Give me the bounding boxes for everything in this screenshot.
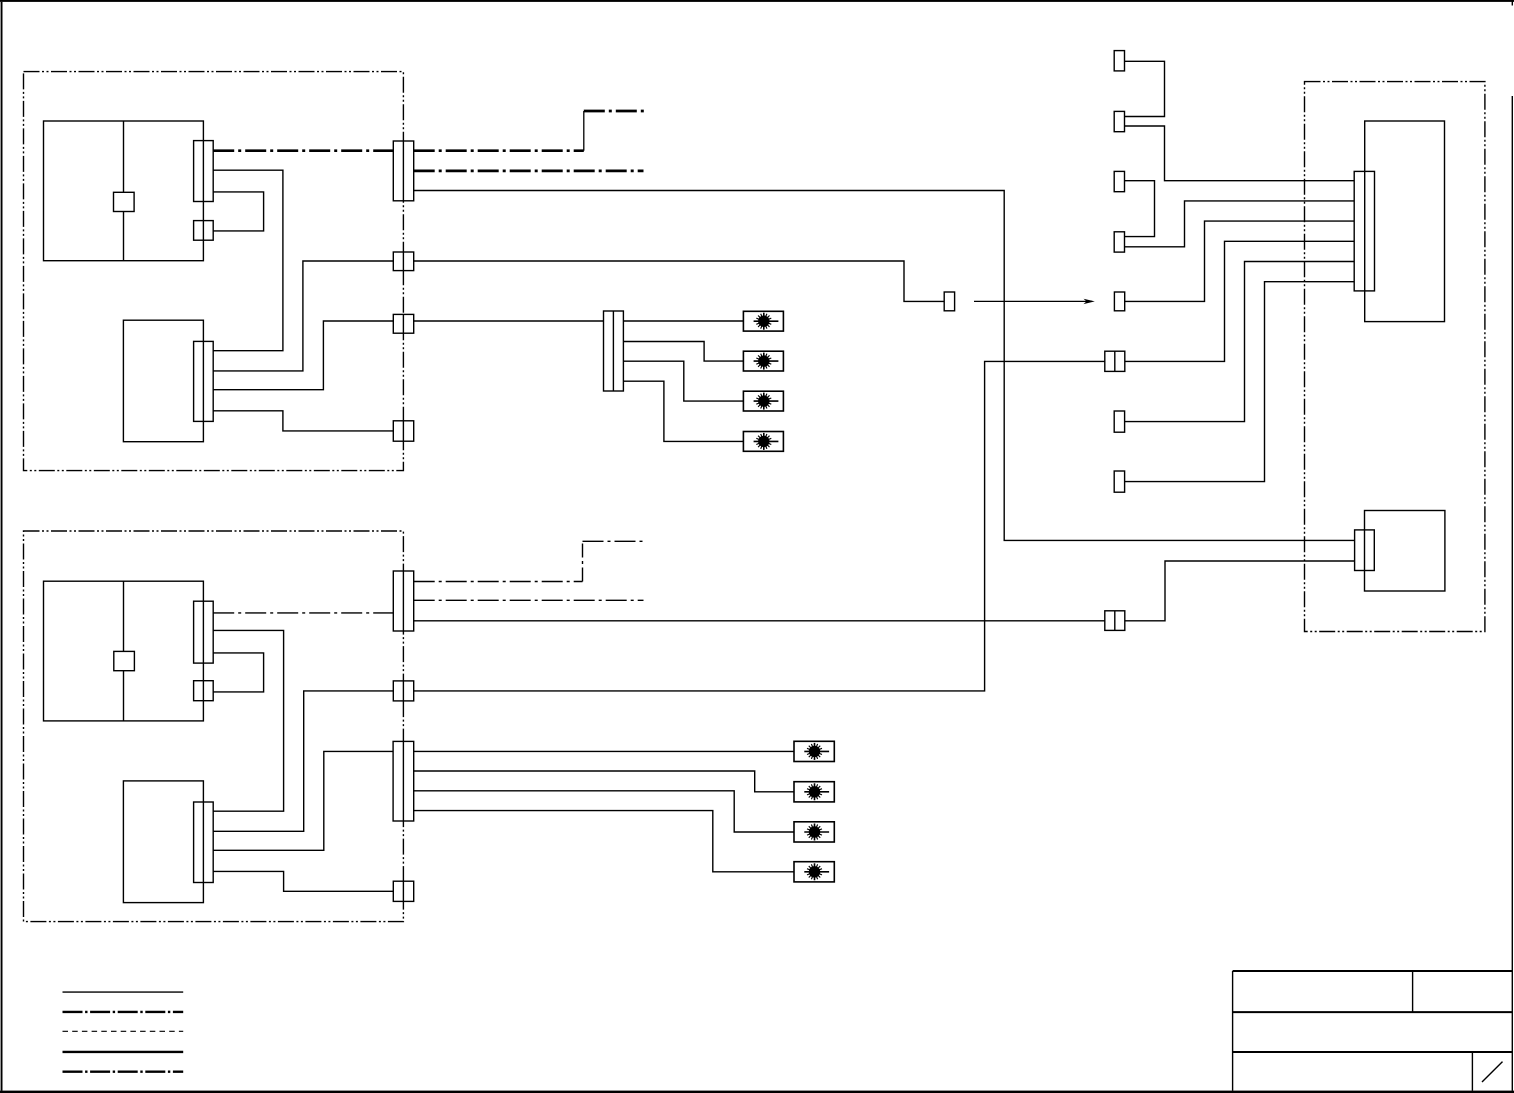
connector C6 — [1105, 351, 1125, 371]
connector A3-b — [194, 681, 214, 701]
wire B1 pin1 thick dash-dot with up-step — [414, 111, 644, 151]
block A1 divider — [123, 121, 125, 261]
connector A2-a — [194, 341, 214, 421]
boundary connector D1 — [393, 571, 413, 631]
arrow to connector C5 — [974, 299, 1095, 304]
wire A1 pin1 thick dash-dot to boundary connector B1 — [213, 149, 393, 152]
wire A4 pin2 to boundary connector D2 — [213, 691, 393, 831]
wire LC1 pin2 to lamp L2 — [623, 342, 743, 362]
connector C5 — [1114, 292, 1124, 311]
lamp L2 — [743, 351, 783, 371]
wire C2 to module pin1 — [1125, 126, 1355, 181]
wire D3 pin3 to lamp L7 — [414, 791, 794, 832]
wire A3 pin2 down to A4 pin1 — [213, 630, 283, 811]
legend line dash-dot thick 2 — [63, 1070, 184, 1072]
wire A2 pin2 to boundary connector B2 — [213, 261, 393, 371]
connector C8 — [1114, 411, 1124, 432]
lamp L5 — [794, 741, 834, 761]
wire D3 pin4 to lamp L8 — [414, 811, 794, 872]
boundary connector D4 — [393, 881, 413, 901]
wire D3 pin1 to lamp L5 — [414, 750, 794, 752]
wire C1 to C2 — [1125, 61, 1165, 116]
connector A4-a — [194, 802, 214, 883]
wire loop A3 pin3 to connector A3-b — [213, 653, 263, 692]
boundary lamp-feed connector D3 — [393, 741, 414, 821]
lamp connector LC1 — [604, 311, 624, 391]
switch block A3 (bottom box) — [44, 581, 204, 721]
wire A4 pin4 to boundary connector D4 — [213, 871, 393, 891]
legend line solid thick — [63, 1051, 184, 1053]
boundary connector B1 — [393, 141, 413, 201]
lamp L8 — [794, 862, 834, 882]
control module U1 — [1365, 121, 1445, 322]
relay block A4 (bottom box) — [123, 781, 203, 903]
wire LC1 pin1 to lamp L1 — [623, 320, 743, 322]
wire B2 to inline connector IC1 — [414, 261, 945, 301]
wire C8 to module pin5 — [1125, 262, 1355, 422]
wire A1 pin2 down to A2 pin1 — [213, 170, 283, 351]
wire loop A1 pin3 to connector A1-b — [213, 192, 263, 231]
harness boundary box top-left (dash-dot-dot) — [24, 72, 404, 471]
wire A4 pin3 to lamp-feed connector D3 — [213, 751, 393, 850]
lamp L6 — [794, 782, 834, 802]
connector C4 — [1114, 232, 1124, 252]
wire C5 to module pin3 — [1125, 221, 1355, 301]
page right border — [1512, 96, 1513, 1091]
connector A1-a — [194, 141, 214, 202]
wire A2 pin3 to lamp connector LC1 — [213, 321, 603, 390]
wire D1 pin3 long run to connector C7 — [414, 620, 1105, 622]
page bottom border bar — [0, 1091, 1514, 1093]
boundary connector B4 — [393, 421, 413, 441]
title block — [1233, 971, 1513, 1091]
wire A2 pin4 to boundary connector B4 — [213, 411, 393, 431]
module connector U2-a — [1355, 530, 1375, 571]
wire D2 up to connector C6 — [414, 361, 1105, 691]
legend line dash-dot thick — [63, 1011, 184, 1013]
wire C4 to module pin2 — [1125, 201, 1355, 247]
connector C1 — [1114, 51, 1124, 71]
wire LC1 pin3 to lamp L3 — [623, 361, 743, 401]
boundary connector D2 — [393, 681, 413, 701]
boundary connector B2 — [393, 252, 413, 271]
harness boundary box right (dash-dot-dot) — [1305, 82, 1485, 632]
wire C6 to module pin4 — [1125, 241, 1354, 361]
wire A3 pin1 dash-dot to boundary connector D1 — [213, 612, 393, 614]
legend line dashed thin — [63, 1030, 184, 1032]
small module U2 — [1365, 511, 1445, 592]
inline connector IC1 — [944, 292, 954, 311]
connector C3 — [1114, 171, 1124, 191]
page right border top tick — [1512, 0, 1513, 6]
wire D1 pin1 dash-dot with up-step — [414, 541, 644, 581]
connector C9 — [1114, 471, 1124, 492]
legend line solid thin — [63, 991, 184, 993]
page top border bar — [0, 0, 1514, 2]
wire D1 pin2 dash-dot — [414, 599, 644, 601]
connector A1-b — [194, 221, 214, 241]
connector C2 — [1114, 111, 1124, 131]
block A1 small square element — [114, 192, 135, 211]
module connector U1-a — [1354, 171, 1374, 291]
wire C3 to C4 — [1125, 181, 1155, 237]
block A3 small square element — [114, 651, 135, 670]
wire D3 pin2 to lamp L6 — [414, 771, 794, 792]
wire B1 pin3 long run to right module connector — [414, 191, 1355, 541]
lamp L4 — [743, 432, 783, 452]
connector A3-a — [194, 601, 214, 663]
wire LC1 pin4 to lamp L4 — [623, 381, 743, 441]
wire C7 to small module connector — [1125, 561, 1355, 621]
connector C7 — [1105, 611, 1125, 631]
boundary connector B3 — [393, 314, 413, 333]
relay block A2 (top box) — [123, 320, 203, 442]
lamp L7 — [794, 822, 834, 842]
page left border — [1, 2, 3, 1091]
lamp L1 — [743, 311, 783, 331]
wire B1 pin2 thick dash-dot — [414, 170, 644, 173]
switch block A1 (top box) — [44, 121, 204, 261]
block A3 divider — [123, 581, 125, 721]
wire C9 to module pin6 — [1125, 282, 1355, 482]
lamp L3 — [743, 391, 783, 411]
harness boundary box bottom-left (dash-dot-dot) — [24, 531, 404, 922]
